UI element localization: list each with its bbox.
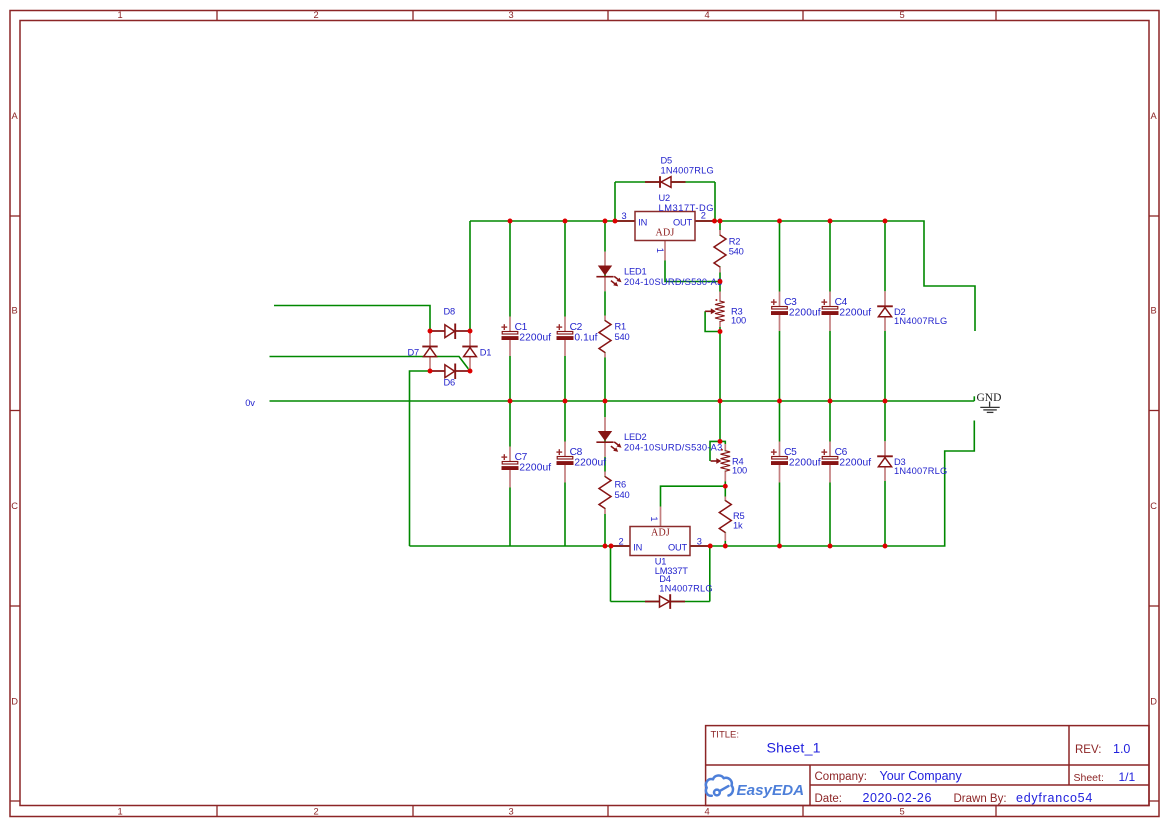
svg-text:B: B [1150, 306, 1156, 316]
svg-text:0v: 0v [245, 398, 255, 408]
svg-text:Your Company: Your Company [880, 769, 963, 783]
svg-text:2200uf: 2200uf [839, 457, 871, 468]
wire C3 column [779, 221, 781, 401]
junction dots 0v rail [508, 399, 513, 404]
svg-text:LED1: LED1 [624, 267, 646, 277]
capacitor C7 [509, 462, 512, 470]
svg-text:3: 3 [509, 807, 514, 817]
svg-text:LED2: LED2 [624, 432, 646, 442]
svg-text:D7: D7 [408, 348, 420, 358]
wire R4 body link [720, 441, 725, 486]
wire C1 column [509, 221, 511, 401]
svg-text:3: 3 [697, 537, 702, 547]
junction dots R2 R3 [718, 279, 723, 284]
wire GND stub [973, 396, 975, 401]
junction dots bridge [428, 329, 433, 334]
svg-text:D: D [1150, 697, 1157, 707]
svg-text:2200uf: 2200uf [839, 307, 871, 318]
wire AC input middle [270, 357, 471, 372]
svg-text:204-10SURD/S530-A3: 204-10SURD/S530-A3 [624, 443, 723, 453]
svg-text:U2: U2 [659, 193, 671, 203]
wire R3 wiper [705, 311, 720, 331]
svg-text:1: 1 [118, 10, 123, 20]
capacitor C8 [564, 457, 567, 465]
svg-text:1k: 1k [733, 521, 743, 531]
svg-text:B: B [11, 306, 17, 316]
pin stubs regulators ADJ [664, 241, 667, 261]
resistor R2 [719, 236, 721, 267]
svg-text:1/1: 1/1 [1119, 770, 1136, 784]
svg-text:LM337T: LM337T [655, 566, 688, 576]
svg-text:D1: D1 [480, 348, 492, 358]
svg-text:ADJ: ADJ [656, 228, 675, 239]
svg-text:Company:: Company: [815, 771, 867, 783]
svg-text:540: 540 [615, 332, 630, 342]
svg-text:D: D [11, 697, 18, 707]
wire 0v to R4 [719, 401, 721, 441]
svg-text:TITLE:: TITLE: [711, 730, 740, 741]
resistor R6 [604, 477, 606, 508]
svg-text:Sheet:: Sheet: [1074, 772, 1104, 784]
wire D2 column [884, 221, 886, 401]
capacitor C1 [509, 332, 512, 340]
svg-text:R2: R2 [729, 236, 741, 246]
wire C2 column [564, 221, 566, 401]
capacitor C5 [778, 457, 781, 465]
svg-text:D8: D8 [444, 307, 456, 317]
wire C8 column [564, 401, 566, 546]
svg-text:U1: U1 [655, 557, 667, 567]
junction dots top rail [508, 219, 513, 224]
wire C4 column [829, 221, 831, 401]
svg-text:A: A [11, 111, 18, 121]
wire LED2 R6 column [604, 401, 606, 546]
svg-text:1: 1 [649, 516, 659, 521]
LED LED2 [598, 431, 612, 441]
svg-text:100: 100 [732, 466, 747, 476]
diode D2 [877, 305, 893, 307]
wire R3 to 0v [719, 332, 721, 402]
svg-text:OUT: OUT [668, 542, 688, 552]
svg-text:4: 4 [705, 10, 710, 20]
svg-text:1: 1 [118, 807, 123, 817]
svg-text:IN: IN [633, 542, 642, 552]
svg-text:100: 100 [731, 316, 746, 326]
svg-text:Date:: Date: [815, 793, 843, 805]
svg-text:2: 2 [701, 211, 706, 221]
svg-text:EasyEDA: EasyEDA [737, 782, 805, 799]
LED LED1 [598, 266, 612, 276]
capacitor C4 [829, 307, 832, 315]
diode D5 [645, 181, 686, 183]
wire R5 branch [724, 486, 726, 546]
wire C5 column [779, 401, 781, 546]
svg-text:1N4007RLG: 1N4007RLG [894, 316, 947, 326]
resistor R1 [604, 321, 606, 352]
capacitor C3 [778, 307, 781, 315]
wire bottom rail [410, 421, 975, 547]
wire bridge positive riser [469, 221, 471, 331]
diode D8 [430, 330, 470, 332]
wire R3 branch [719, 282, 721, 332]
wire LED1 R1 column [604, 221, 606, 401]
wire D4 bottom [611, 601, 710, 603]
diode D1 [462, 346, 477, 348]
op-amp U1 LM337T [611, 545, 630, 547]
svg-text:ADJ: ADJ [651, 527, 670, 538]
svg-text:C: C [1150, 501, 1157, 511]
svg-text:R6: R6 [615, 480, 627, 490]
svg-text:REV:: REV: [1075, 744, 1101, 756]
potentiometer R4 [724, 451, 726, 471]
wire D5 right [714, 182, 716, 221]
svg-text:2: 2 [314, 807, 319, 817]
svg-text:2200uf: 2200uf [789, 457, 821, 468]
wire D4 right [709, 546, 711, 602]
junction dots bottom rail [603, 544, 608, 549]
svg-text:2020-02-26: 2020-02-26 [863, 791, 932, 805]
diode D3 [877, 455, 893, 457]
diode D6 [430, 370, 470, 372]
svg-text:540: 540 [615, 490, 630, 500]
wire U2 ADJ [665, 241, 720, 282]
svg-text:1N4007RLG: 1N4007RLG [661, 165, 714, 175]
wire top rail [470, 221, 975, 331]
capacitor C6 [829, 457, 832, 465]
svg-text:2200uf: 2200uf [519, 462, 551, 473]
svg-text:540: 540 [729, 247, 744, 257]
pin stubs capacitors [509, 317, 512, 332]
svg-text:1N4007RLG: 1N4007RLG [659, 583, 712, 593]
svg-text:1N4007RLG: 1N4007RLG [894, 466, 947, 476]
svg-text:Sheet_1: Sheet_1 [767, 741, 821, 757]
junction dots R4 [718, 439, 723, 444]
pin stubs resistors [604, 316, 607, 321]
svg-text:2200uf: 2200uf [519, 332, 551, 343]
resistor R5 [724, 501, 726, 532]
EasyEDA logo [706, 775, 733, 795]
wire R4 wiper [710, 441, 720, 461]
svg-text:4: 4 [705, 807, 710, 817]
pin stubs LEDs [604, 252, 607, 266]
wire U1 ADJ [661, 486, 726, 526]
svg-text:2: 2 [619, 537, 624, 547]
wire C7 column [509, 401, 511, 546]
diode D4 [645, 601, 685, 603]
svg-text:5: 5 [900, 10, 905, 20]
svg-text:D6: D6 [444, 377, 456, 387]
svg-text:2200uf: 2200uf [789, 307, 821, 318]
svg-text:1.0: 1.0 [1113, 742, 1130, 756]
svg-text:2: 2 [314, 10, 319, 20]
op-amp U2 LM317T-DG [615, 220, 635, 222]
potentiometer R3 [719, 302, 721, 322]
svg-text:OUT: OUT [673, 217, 693, 227]
capacitor C2 [564, 332, 567, 340]
wire 0v rail [270, 400, 975, 402]
svg-text:Drawn By:: Drawn By: [954, 793, 1007, 805]
wire R2 branch [719, 221, 721, 282]
svg-text:IN: IN [638, 217, 647, 227]
svg-text:R1: R1 [615, 321, 627, 331]
svg-text:C: C [11, 501, 18, 511]
svg-text:3: 3 [622, 211, 627, 221]
pin stubs vertical diodes [884, 291, 887, 306]
wire D3 column [884, 401, 886, 546]
wire D5 top [615, 181, 715, 183]
svg-text:A: A [1150, 111, 1157, 121]
svg-text:0.1uf: 0.1uf [574, 332, 597, 343]
svg-text:R5: R5 [733, 511, 745, 521]
svg-text:204-10SURD/S530-A3: 204-10SURD/S530-A3 [624, 277, 723, 287]
svg-text:1: 1 [655, 248, 665, 253]
svg-text:2200uf: 2200uf [574, 457, 606, 468]
wire bridge negative to bottom rail [410, 371, 431, 546]
svg-text:5: 5 [900, 807, 905, 817]
svg-text:3: 3 [509, 10, 514, 20]
wire D4 left [610, 546, 612, 602]
svg-text:edyfranco54: edyfranco54 [1016, 791, 1093, 805]
svg-text:D5: D5 [661, 156, 673, 166]
wire C6 column [829, 401, 831, 546]
wire D5 left [614, 182, 616, 221]
wire AC input top [274, 306, 430, 332]
title block [706, 726, 1149, 806]
diode D7 [422, 346, 437, 348]
